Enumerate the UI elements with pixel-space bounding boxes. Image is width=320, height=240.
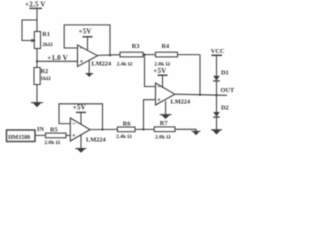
svg-text:VCC: VCC [211,48,225,55]
svg-text:2.0k Ω: 2.0k Ω [155,134,171,140]
svg-text:R2: R2 [41,68,49,75]
svg-text:+5V: +5V [79,27,92,35]
svg-text:2.0k Ω: 2.0k Ω [44,140,60,146]
svg-text:+5V: +5V [73,104,86,112]
svg-text:D2: D2 [221,105,229,112]
svg-text:LM224: LM224 [171,98,191,105]
svg-text:+1.0 V: +1.0 V [47,54,68,62]
svg-text:D1: D1 [221,70,229,77]
svg-text:2.4k Ω: 2.4k Ω [117,61,133,67]
svg-text:IN: IN [37,126,44,133]
svg-text:2kΩ: 2kΩ [42,42,53,48]
svg-text:2.4k Ω: 2.4k Ω [116,134,132,140]
svg-text:R1: R1 [42,31,50,38]
svg-text:+2.5 V: +2.5 V [25,1,46,9]
svg-text:2.0k Ω: 2.0k Ω [154,61,170,67]
svg-text:1kΩ: 1kΩ [41,76,52,82]
svg-text:+5V: +5V [153,67,166,75]
svg-text:LM224: LM224 [86,136,106,143]
svg-text:R7: R7 [160,120,168,127]
svg-text:LM224: LM224 [92,61,112,68]
svg-text:R6: R6 [123,120,131,127]
svg-text:OUT: OUT [221,87,235,94]
svg-text:R5: R5 [50,127,58,134]
svg-text:R3: R3 [132,43,140,50]
svg-text:HM1500: HM1500 [8,135,30,141]
svg-text:R4: R4 [162,43,171,50]
